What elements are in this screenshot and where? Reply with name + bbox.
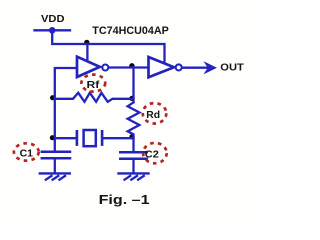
svg-text:Rd: Rd <box>146 110 160 121</box>
svg-text:Rf: Rf <box>87 80 101 91</box>
svg-text:Fig. –1: Fig. –1 <box>99 192 150 207</box>
svg-text:C2: C2 <box>145 150 159 161</box>
svg-text:VDD: VDD <box>41 14 65 25</box>
svg-text:OUT: OUT <box>220 62 244 73</box>
svg-text:C1: C1 <box>20 149 34 160</box>
svg-text:TC74HCU04AP: TC74HCU04AP <box>92 25 169 37</box>
